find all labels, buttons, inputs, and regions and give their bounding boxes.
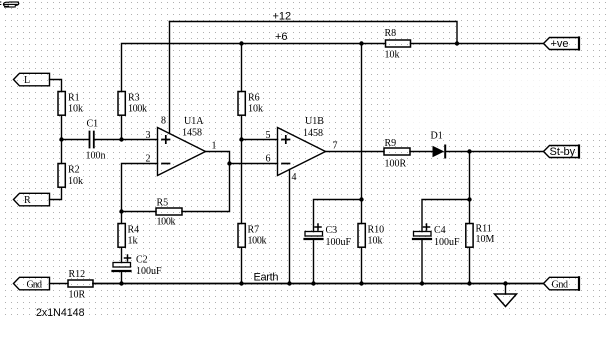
- wire C3 to ground rail: [313, 240, 315, 284]
- node rail R7 junction: [239, 281, 243, 285]
- svg-text:R10: R10: [368, 225, 385, 236]
- wire C4 to ground rail: [421, 240, 423, 284]
- capacitor C2: [113, 263, 131, 272]
- svg-text:R2: R2: [68, 165, 80, 176]
- svg-text:4: 4: [292, 172, 297, 183]
- svg-text:6: 6: [266, 154, 271, 165]
- connector R: [14, 193, 50, 206]
- svg-text:100n: 100n: [86, 151, 106, 162]
- wire R11 from D1 down: [469, 152, 471, 224]
- wire Gnd to R12: [50, 283, 69, 285]
- wire pin 6: [230, 163, 278, 165]
- resistor R11: [466, 224, 473, 248]
- svg-text:1458: 1458: [303, 128, 323, 139]
- node R6/pin5 junction: [239, 137, 243, 141]
- resistor R9: [384, 148, 410, 155]
- node B junction: [119, 137, 123, 141]
- node rail C4 junction: [420, 281, 424, 285]
- svg-text:R11: R11: [476, 224, 492, 235]
- svg-text:R4: R4: [128, 225, 140, 236]
- wire R10 from +6 down: [361, 44, 363, 224]
- wire pin 4 to ground rail: [289, 170, 291, 284]
- svg-text:R5: R5: [157, 198, 169, 209]
- op-amp U1A minus mark: [162, 163, 170, 165]
- connector +ve: [544, 38, 580, 50]
- svg-text:7: 7: [333, 141, 338, 152]
- wire R2 node A to R2: [61, 140, 63, 164]
- svg-text:100uF: 100uF: [326, 237, 352, 248]
- wire R1 to node A: [61, 115, 63, 139]
- wire D1 to St-by: [446, 151, 544, 153]
- svg-text:R8: R8: [385, 28, 397, 39]
- svg-text:+ve: +ve: [551, 38, 569, 50]
- svg-text:100uF: 100uF: [434, 237, 460, 248]
- svg-text:8: 8: [161, 116, 166, 127]
- svg-text:D1: D1: [431, 131, 443, 142]
- wire pin 5: [242, 139, 278, 141]
- wire U1B output to R9: [326, 151, 385, 153]
- wire node B to pin 3: [122, 139, 158, 141]
- capacitor C4: [413, 232, 431, 240]
- resistor R3: [118, 92, 125, 116]
- wire ground rail: [93, 283, 544, 285]
- svg-text:C2: C2: [136, 255, 148, 266]
- resistor R7: [238, 224, 245, 248]
- svg-text:C3: C3: [326, 225, 338, 236]
- svg-text:Gnd: Gnd: [552, 280, 569, 291]
- wire C1 to node B: [94, 139, 121, 141]
- svg-text:U1B: U1B: [305, 116, 324, 127]
- wire +12 rail: [170, 22, 458, 44]
- node rail R10 junction: [359, 281, 363, 285]
- op-amp U1A: [158, 128, 206, 176]
- wire C3 top: [314, 200, 362, 232]
- svg-text:+6: +6: [275, 31, 288, 43]
- node C4 junction: [467, 197, 471, 201]
- wire R4 to C2: [121, 247, 123, 262]
- svg-text:C1: C1: [87, 119, 99, 130]
- svg-text:1k: 1k: [128, 236, 138, 247]
- capacitor C3 plus mark: [315, 224, 321, 230]
- svg-text:5: 5: [266, 130, 271, 141]
- capacitor C4 plus mark: [424, 224, 430, 230]
- wire R9 to D1: [410, 151, 433, 153]
- node C junction: [119, 209, 123, 213]
- op-amp U1B minus mark: [282, 163, 290, 165]
- node junction +6/+12: [455, 41, 459, 45]
- resistor R2: [58, 164, 65, 188]
- node rail pin4 junction: [287, 281, 291, 285]
- svg-text:10k: 10k: [68, 176, 83, 187]
- connector Gnd left: [14, 277, 50, 290]
- svg-text:St-by: St-by: [550, 146, 576, 158]
- node rail C2 junction: [119, 281, 123, 285]
- svg-text:R1: R1: [68, 93, 80, 104]
- svg-text:1458: 1458: [182, 128, 202, 139]
- svg-text:Gnd: Gnd: [27, 280, 43, 291]
- svg-text:R7: R7: [248, 225, 260, 236]
- svg-text:R3: R3: [128, 93, 140, 104]
- svg-text:R: R: [24, 195, 31, 206]
- wire +6 rail: [122, 44, 544, 92]
- op-amp U1A plus mark: [162, 136, 170, 143]
- svg-text:R6: R6: [248, 93, 260, 104]
- wire L to R1: [50, 80, 62, 92]
- resistor R1: [58, 92, 65, 116]
- op-amp U1B plus mark: [282, 136, 290, 143]
- wire pin 2: [122, 164, 158, 212]
- wire R2 to connector R: [50, 187, 62, 199]
- resistor R10: [358, 224, 365, 248]
- wire R6 bottom to R7: [241, 115, 243, 223]
- node rail ground symbol junction: [503, 281, 507, 285]
- svg-text:R12: R12: [69, 269, 86, 280]
- ground symbol: [495, 284, 517, 307]
- svg-text:R9: R9: [385, 138, 397, 149]
- node C3 junction: [359, 197, 363, 201]
- svg-text:L: L: [24, 75, 30, 86]
- esp logo: [0, 2, 19, 7]
- connector L: [14, 73, 50, 86]
- wire U1A output: [182, 152, 230, 212]
- svg-text:2: 2: [146, 154, 151, 165]
- svg-text:1: 1: [212, 141, 217, 152]
- svg-text:100k: 100k: [248, 236, 267, 247]
- svg-text:U1A: U1A: [184, 116, 204, 127]
- connector St-by: [544, 146, 580, 158]
- node output junction pin6: [227, 161, 231, 165]
- capacitor C2 plus mark: [125, 255, 131, 261]
- wire C2 to ground rail: [121, 272, 123, 284]
- wire node C to R4: [121, 212, 123, 224]
- svg-text:100uF: 100uF: [136, 266, 162, 277]
- op-amp U1B: [278, 128, 326, 176]
- node D1/R11 junction: [467, 149, 471, 153]
- svg-text:10k: 10k: [368, 236, 383, 247]
- resistor R8: [386, 40, 411, 47]
- svg-text:100R: 100R: [385, 159, 407, 170]
- resistor R4: [118, 224, 125, 248]
- svg-text:C4: C4: [434, 225, 446, 236]
- svg-text:100k: 100k: [128, 104, 147, 115]
- resistor R5: [156, 208, 182, 215]
- node rail R11 junction: [467, 281, 471, 285]
- capacitor C3: [305, 232, 323, 240]
- wire R3 to node B: [121, 115, 123, 139]
- resistor R12: [68, 280, 93, 287]
- wire node A to C1: [62, 139, 90, 141]
- wire R5 to node C: [122, 211, 157, 213]
- wire R7 to ground rail: [241, 247, 243, 283]
- svg-text:Earth: Earth: [254, 272, 279, 284]
- svg-text:+12: +12: [273, 11, 292, 23]
- svg-text:10M: 10M: [476, 234, 495, 245]
- svg-text:10R: 10R: [69, 290, 86, 301]
- node A junction: [59, 137, 63, 141]
- svg-text:10k: 10k: [248, 104, 263, 115]
- node rail C3 junction: [311, 281, 315, 285]
- svg-text:100k: 100k: [157, 217, 176, 228]
- node junction +6/R10: [359, 41, 363, 45]
- svg-text:3: 3: [146, 130, 151, 141]
- svg-text:2x1N4148: 2x1N4148: [36, 307, 85, 319]
- resistor R6: [238, 92, 245, 116]
- wire R11 to ground rail: [469, 247, 471, 283]
- connector Gnd right: [544, 277, 580, 290]
- node junction +6/R6: [239, 41, 243, 45]
- svg-text:10k: 10k: [385, 50, 400, 61]
- wire pin 8 supply: [169, 22, 171, 134]
- capacitor C1: [90, 132, 94, 148]
- wire R6 top to +6: [241, 44, 243, 92]
- svg-text:10k: 10k: [68, 104, 83, 115]
- diode D1: [433, 146, 446, 158]
- wire C4 top: [422, 200, 470, 232]
- wire R10 to ground rail: [361, 247, 363, 283]
